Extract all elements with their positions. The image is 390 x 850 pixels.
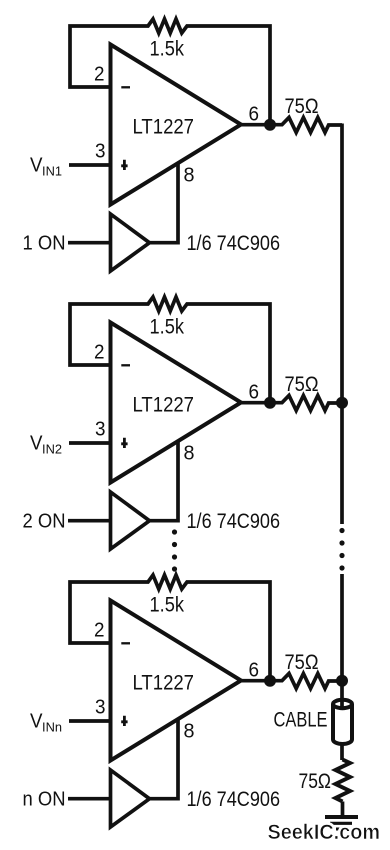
svg-text:n ON: n ON (23, 789, 66, 811)
svg-text:1 ON: 1 ON (23, 233, 66, 255)
svg-text:SeekIC.com: SeekIC.com (268, 820, 381, 844)
svg-text:IN2: IN2 (42, 442, 62, 457)
svg-text:2 ON: 2 ON (23, 511, 66, 533)
svg-text:CABLE: CABLE (274, 708, 328, 732)
svg-text:75Ω: 75Ω (299, 770, 332, 793)
svg-text:IN1: IN1 (42, 164, 62, 179)
svg-text:INn: INn (42, 720, 62, 735)
